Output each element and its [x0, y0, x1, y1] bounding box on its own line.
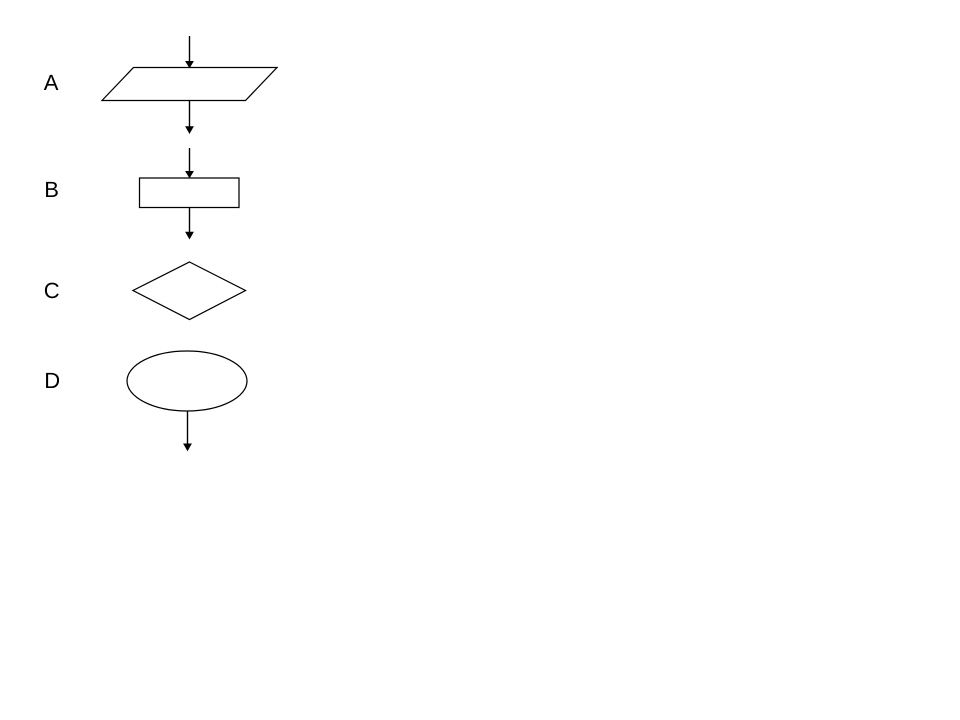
arrow into rectangle B — [185, 148, 194, 178]
diamond C (decision) — [133, 262, 246, 320]
arrow out of parallelogram A — [185, 101, 194, 135]
arrow into parallelogram A — [185, 36, 194, 68]
svg-text:C: C — [44, 278, 60, 303]
arrow out of rectangle B — [185, 208, 194, 240]
ellipse D (terminator) — [127, 351, 247, 411]
svg-text:D: D — [44, 368, 60, 393]
parallelogram A (input/output) — [102, 68, 277, 101]
svg-text:B: B — [44, 177, 59, 202]
arrow out of ellipse D — [183, 411, 192, 451]
svg-text:A: A — [44, 70, 59, 95]
rectangle B (process) — [140, 178, 240, 208]
